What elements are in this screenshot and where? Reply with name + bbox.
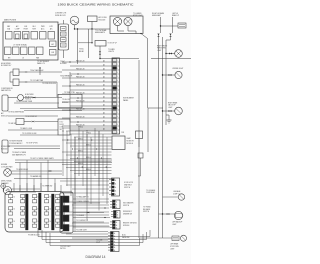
label trunk release	[143, 206, 151, 213]
fuse F12	[14, 32, 21, 40]
wire S1 bracket	[10, 72, 13, 82]
connector J3	[110, 200, 120, 209]
switch cell 3	[63, 215, 69, 222]
connector arrow E	[169, 74, 172, 76]
wire mesh h173	[74, 173, 112, 175]
wire drop into fuse 3	[33, 179, 35, 192]
box b2	[136, 131, 143, 139]
svg-text:MODULE: MODULE	[1, 148, 7, 150]
wire label pin 6b	[103, 80, 105, 83]
label h178	[30, 175, 42, 178]
wire sw out 7	[73, 221, 104, 223]
node RB1	[99, 58, 100, 59]
label S1b	[30, 79, 43, 82]
svg-text:MODULE: MODULE	[123, 225, 129, 227]
connector arrow G	[25, 71, 28, 73]
wire mesh h131	[66, 130, 112, 132]
fuse F11	[6, 32, 13, 40]
wire label pin 18b	[103, 128, 105, 131]
label ac relay	[108, 48, 116, 53]
fuse F22	[13, 47, 20, 55]
wire drop x92	[91, 29, 93, 43]
svg-text:TO TRUNK: TO TRUNK	[143, 206, 151, 208]
connector arrow B	[169, 34, 171, 37]
svg-text:SWITCH: SWITCH	[60, 248, 66, 250]
node pin 4	[77, 73, 78, 74]
wire comb feed 0	[60, 180, 109, 182]
wire fuse feed 4	[40, 183, 42, 192]
switch cell 2	[63, 206, 69, 213]
wire label pin 12b	[103, 104, 105, 107]
wire comb feed 3	[60, 192, 109, 194]
svg-text:TO COURTESY LP: TO COURTESY LP	[76, 220, 88, 222]
box door col	[58, 119, 70, 135]
svg-text:BRN 44: BRN 44	[78, 163, 83, 165]
wire label pin 10b	[103, 96, 105, 99]
wire h130	[8, 129, 58, 131]
wire label pin 11b	[103, 100, 105, 103]
wire right v2 top	[172, 17, 174, 33]
fuse F23	[21, 47, 28, 55]
wire sw out 2	[73, 207, 109, 209]
relay coil RC1	[8, 95, 24, 101]
label temp	[64, 92, 75, 94]
label RC1	[25, 94, 34, 100]
node x77	[77, 28, 78, 29]
label M1	[1, 112, 8, 117]
svg-text:LIGHTS: LIGHTS	[108, 51, 114, 53]
wire label pin 13b	[103, 108, 105, 111]
fuse column 2	[21, 195, 28, 228]
wire drop x77	[77, 29, 79, 64]
label M2	[9, 140, 22, 144]
wire mesh h146	[70, 145, 112, 147]
label J5	[123, 222, 137, 226]
wire h116	[8, 115, 58, 117]
svg-text:FUSE: FUSE	[24, 28, 28, 30]
svg-text:COMP: COMP	[15, 28, 20, 30]
wire relay stack feed	[63, 20, 65, 24]
wire drop x88	[88, 29, 90, 58]
wire RB1 drop 2	[99, 55, 101, 59]
wire J1 pin 18	[70, 129, 112, 131]
wire sw out 1	[73, 198, 109, 200]
wire comb feed 7	[66, 214, 109, 216]
wire h148	[14, 148, 60, 150]
wire mesh v95	[94, 128, 96, 176]
wire luggage	[163, 196, 179, 198]
svg-text:HIGH SPEED: HIGH SPEED	[1, 63, 12, 65]
label mesh h146	[86, 144, 91, 146]
wire right v1 top	[160, 17, 162, 33]
wire label pin 8b	[103, 88, 105, 91]
wire mesh h149	[74, 148, 112, 150]
wire ip long v2	[147, 39, 149, 109]
resistor box RB1	[95, 41, 117, 47]
fuse F16	[48, 32, 55, 40]
lamp L1	[113, 17, 121, 25]
label to ac left	[79, 48, 85, 53]
wire sw out 6	[73, 212, 104, 214]
svg-text:INTERIOR LT: INTERIOR LT	[123, 211, 132, 213]
svg-text:TO TEMP CTRL: TO TEMP CTRL	[64, 92, 75, 94]
svg-text:REMOTE KEYLESS: REMOTE KEYLESS	[123, 222, 137, 224]
wire fuse feed 1	[19, 185, 21, 192]
switch S1a	[13, 69, 19, 76]
title text	[58, 3, 135, 7]
wire m3 a	[11, 170, 62, 172]
svg-text:BRN 44: BRN 44	[78, 150, 83, 152]
wire h135	[20, 134, 58, 136]
wire comb feed 6	[60, 211, 109, 213]
fuse column 4	[45, 195, 52, 228]
fuse F24	[29, 47, 36, 55]
label J3	[123, 201, 134, 206]
wire mesh h128	[62, 127, 112, 129]
wire J1 pin 5	[62, 77, 112, 79]
wire h103	[14, 102, 59, 104]
svg-text:DOWNSTRM: DOWNSTRM	[1, 146, 11, 148]
svg-text:1993 BUICK CESAIRE WIRING SCHE: 1993 BUICK CESAIRE WIRING SCHEMATIC	[58, 3, 135, 7]
wire label pin 11	[76, 100, 85, 102]
label flasher	[1, 180, 12, 185]
svg-text:BRN 44: BRN 44	[86, 157, 91, 159]
svg-text:TO RIGHT ENGINE: TO RIGHT ENGINE	[9, 140, 22, 142]
svg-text:TO INSTRUMENT: TO INSTRUMENT	[37, 61, 49, 63]
svg-text:ENGINE: ENGINE	[1, 164, 7, 166]
svg-text:LIGHT: LIGHT	[168, 107, 173, 109]
node headlamp corner	[140, 33, 141, 34]
wire J1 pin 7	[62, 85, 112, 87]
svg-text:BLOWER: BLOWER	[60, 63, 67, 65]
wire S1a out	[19, 71, 24, 73]
fuse block label	[28, 235, 40, 237]
wire mesh h167	[66, 167, 112, 169]
fuse F11 label	[7, 25, 11, 30]
module M1	[2, 95, 8, 111]
label to generator	[133, 13, 142, 17]
label to ac	[60, 60, 67, 65]
wire m3 b	[11, 173, 62, 175]
fuse F25	[37, 47, 44, 55]
svg-text:BLOWER RLY: BLOWER RLY	[1, 65, 12, 67]
wire h42	[78, 42, 92, 44]
label compressor	[1, 88, 13, 92]
wire defog out	[24, 121, 31, 123]
svg-text:TO IGN SW: TO IGN SW	[8, 123, 17, 125]
wire mesh h140	[62, 139, 112, 141]
wire J1 pin 1	[62, 61, 112, 63]
label J4	[123, 211, 133, 215]
wire h108	[20, 107, 112, 109]
svg-text:FUSE BLOCK: FUSE BLOCK	[55, 15, 67, 17]
node mesh 4	[82, 166, 83, 167]
wire J1 pin 9	[62, 93, 112, 95]
fuse F27	[50, 50, 57, 56]
svg-text:TO WIPER SW: TO WIPER SW	[42, 185, 53, 187]
svg-text:STOP/TURN: STOP/TURN	[170, 246, 179, 248]
wire long v1	[158, 37, 160, 238]
svg-text:TO PWR WINDOWS: TO PWR WINDOWS	[42, 83, 56, 85]
node tail stop	[162, 110, 163, 111]
headlamp box	[110, 16, 143, 34]
svg-text:TO GENER-: TO GENER-	[133, 13, 142, 15]
relay K2	[61, 32, 67, 36]
fuse F16 label	[50, 26, 54, 30]
svg-text:MONITOR: MONITOR	[127, 140, 135, 142]
wire mesh h158	[70, 158, 112, 160]
caption diagram 14	[86, 255, 106, 259]
wire ip long v	[138, 60, 140, 238]
svg-text:RIGHT FRONT: RIGHT FRONT	[157, 45, 167, 47]
instrument panel box edge	[148, 108, 163, 152]
svg-text:PNK BLK 39: PNK BLK 39	[76, 92, 85, 94]
label high speed blower	[1, 63, 12, 67]
wire sw out 4	[73, 226, 110, 228]
label b2	[121, 132, 124, 134]
wire h110	[24, 110, 82, 112]
wire bus 4	[50, 233, 140, 246]
wire comb feed 8	[72, 222, 109, 224]
svg-text:SWITCH: SWITCH	[123, 205, 129, 207]
wire J1 pin 10	[70, 97, 112, 99]
label left license	[30, 157, 54, 160]
wire mesh v87	[86, 134, 88, 196]
svg-text:2 DR: 2 DR	[121, 132, 124, 134]
wire mesh v103	[102, 134, 104, 196]
wire defog out2	[35, 121, 58, 123]
wire long v3	[165, 40, 167, 125]
wire bus 2	[42, 230, 147, 240]
connector arrow D	[169, 53, 172, 55]
lamp tail stop	[175, 107, 183, 115]
node mesh 5	[86, 130, 87, 131]
lamp monitor label	[127, 137, 135, 145]
fuse column 5	[56, 195, 63, 228]
wire fuse feed 6	[54, 183, 56, 192]
wire diode drop	[91, 22, 93, 30]
label sw2	[76, 215, 84, 217]
svg-text:PNK BLK 39: PNK BLK 39	[76, 68, 85, 70]
wire right cross	[161, 25, 179, 27]
svg-text:RH: RH	[8, 58, 10, 60]
wire headlamp diag	[141, 34, 148, 39]
wire mesh v107	[106, 137, 108, 204]
label right headlamp	[152, 12, 165, 17]
wire comb feed 10	[66, 233, 108, 235]
node mesh 0	[62, 130, 63, 131]
connector arrow K	[49, 170, 51, 172]
wire mesh v63	[62, 128, 64, 176]
wire gnd drop	[2, 188, 4, 191]
wire mesh v71	[70, 134, 72, 196]
wire fuse feed 3	[33, 185, 35, 192]
svg-text:BRN 44: BRN 44	[86, 169, 91, 171]
wire top bus	[75, 28, 111, 30]
svg-text:DIAGRAM 14: DIAGRAM 14	[86, 255, 106, 259]
connector J1 outline	[112, 58, 120, 134]
label sw	[76, 196, 89, 199]
svg-text:LEFT HI: LEFT HI	[172, 13, 178, 15]
svg-text:DOOR: DOOR	[60, 124, 64, 126]
lamp park turn	[175, 50, 183, 58]
wire RB1 drop	[99, 46, 101, 51]
fuse bar 4	[61, 196, 63, 229]
connector arrow L	[167, 213, 170, 215]
ground G200	[1, 184, 6, 189]
wire fuse feed 7	[60, 185, 62, 192]
node trunk	[162, 213, 163, 214]
wire lamp L2 down	[128, 26, 136, 34]
wire label pin 5b	[103, 76, 105, 79]
fuse row 2 header	[13, 44, 27, 47]
svg-text:TO DOME LIGHT: TO DOME LIGHT	[76, 230, 87, 232]
wire drop into fuse 1	[19, 163, 21, 192]
wire drop into fuse 5	[47, 160, 49, 192]
label luggage	[173, 190, 180, 195]
svg-text:LICENSE LIGHT: LICENSE LIGHT	[172, 68, 183, 70]
wire mesh h134	[70, 133, 112, 135]
label mesh h170	[86, 169, 91, 171]
label mid extra 5	[42, 185, 53, 187]
node x92	[91, 42, 92, 43]
lamp stop turn	[181, 235, 187, 241]
node diode junction	[91, 28, 92, 29]
relay K1	[61, 27, 67, 31]
label right label	[12, 152, 26, 156]
wire label pin 13	[76, 108, 85, 110]
fuse F14	[31, 32, 38, 40]
svg-text:TO STOP LP SW: TO STOP LP SW	[26, 142, 38, 144]
wire bus 1	[38, 228, 150, 237]
wire label pin 17b	[103, 124, 105, 127]
svg-text:LIGHT: LIGHT	[96, 242, 100, 244]
lamp luggage	[178, 194, 184, 200]
svg-text:LIGHT: LIGHT	[170, 248, 175, 250]
label to alternator	[60, 74, 73, 77]
wire park turn	[166, 53, 175, 55]
wire comb feed 4	[66, 201, 109, 203]
node gauge junction	[74, 28, 75, 29]
wire label pin 1b	[103, 60, 105, 63]
lamp backup	[174, 211, 183, 219]
fuse bar 2	[39, 193, 42, 230]
wire mesh long v2	[86, 134, 88, 221]
fuse panel label	[4, 19, 17, 22]
label sw3	[76, 200, 89, 203]
label mesh h140	[78, 138, 83, 140]
fuse column 1	[9, 195, 16, 228]
svg-text:TO DEFOGGER TIMER: TO DEFOGGER TIMER	[16, 101, 33, 103]
fuse F13	[23, 32, 30, 40]
svg-text:TO CLUSTER ILLUM: TO CLUSTER ILLUM	[22, 133, 37, 135]
switch S1b	[13, 79, 19, 86]
wire S1a out2	[28, 71, 62, 73]
label S1a	[30, 69, 43, 72]
label mesh h128	[78, 126, 83, 128]
label sw4	[76, 220, 88, 222]
wire mesh h152	[62, 151, 112, 153]
svg-text:LIGHT: LIGHT	[157, 50, 162, 52]
wire mesh h155	[66, 154, 112, 156]
headlamp label	[95, 29, 107, 34]
wire J1 pin 12	[70, 105, 112, 107]
svg-text:PNK BLK 39: PNK BLK 39	[76, 116, 85, 118]
node mesh 3	[77, 157, 78, 158]
wire mesh v83	[82, 131, 84, 186]
node pin 10	[77, 97, 78, 98]
wire comb feed 9	[60, 225, 109, 227]
wire J1 pin 11	[62, 101, 112, 103]
wire mesh long v1	[74, 137, 76, 232]
connector arrow I	[33, 97, 36, 99]
label sw5	[76, 230, 87, 232]
wire label pin 1	[76, 60, 85, 62]
wire bracket 162	[15, 162, 112, 164]
svg-text:SWITCH: SWITCH	[124, 187, 130, 189]
svg-text:TO BLOWER SW: TO BLOWER SW	[25, 116, 37, 118]
wire sw out 5	[73, 202, 100, 204]
lamp license	[175, 71, 182, 78]
wire f1 a	[12, 188, 41, 190]
svg-text:MODULE: MODULE	[127, 143, 133, 145]
svg-text:DOOR LOCK: DOOR LOCK	[124, 182, 133, 184]
fuse row 2 notes	[8, 57, 39, 60]
svg-text:IGN: IGN	[51, 52, 54, 54]
wire label pin 15b	[103, 116, 105, 119]
label defog	[25, 116, 37, 118]
label left headlamp	[172, 13, 179, 17]
ground G401	[167, 115, 172, 123]
fuse panel box	[3, 22, 58, 60]
motor M3	[4, 169, 12, 177]
wire trunk	[159, 213, 175, 215]
wire mesh v99	[98, 131, 100, 186]
wire label pin 2b	[103, 64, 105, 67]
wire comb feed 11	[72, 237, 108, 239]
fuse F12 label	[15, 25, 20, 30]
wire mesh h170	[70, 170, 112, 172]
fuse block outline	[5, 192, 64, 233]
fuse column 3	[33, 195, 40, 228]
svg-text:COMPRESSOR: COMPRESSOR	[1, 88, 13, 90]
lamp L2	[124, 17, 132, 25]
wire J1 pin 13	[62, 109, 112, 111]
connector CN2	[172, 236, 179, 241]
wire license	[163, 74, 175, 76]
label luggage feed	[146, 189, 155, 194]
switch module box	[60, 192, 73, 233]
wire long v2	[162, 37, 164, 238]
wire b3 leg	[138, 158, 141, 176]
wire J1 pin 3	[62, 69, 112, 71]
wire J1 pin 2	[70, 65, 112, 67]
label license	[172, 68, 183, 70]
lamp monitor box	[112, 136, 125, 150]
fuse F14 label	[32, 26, 36, 30]
flasher F1	[4, 187, 12, 195]
diode box D1	[88, 16, 98, 22]
wire ground stub	[166, 114, 169, 116]
wire fuse feed 5	[47, 185, 49, 192]
switch cell 1	[63, 196, 69, 203]
svg-text:TO STOP LP: TO STOP LP	[108, 43, 117, 45]
connector CN1	[178, 23, 186, 28]
wire mesh v67	[66, 131, 68, 186]
wire fuse feed 2	[26, 183, 28, 192]
connector J5	[110, 221, 120, 230]
label J2	[124, 182, 133, 189]
